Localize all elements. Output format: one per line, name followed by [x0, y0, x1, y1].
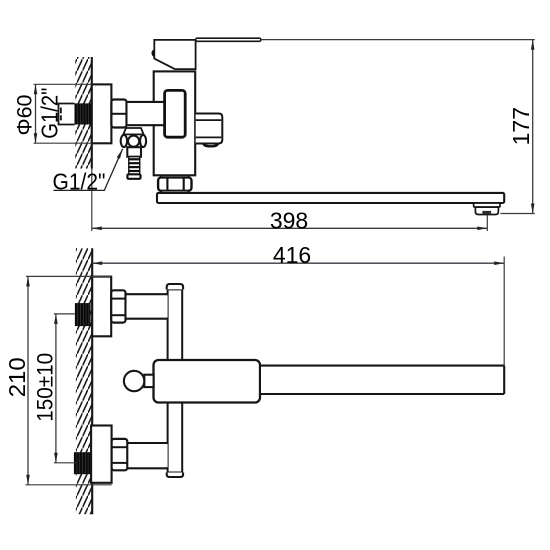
aerator lip — [474, 203, 500, 207]
valve neck — [127, 147, 141, 157]
faucet body (top view) — [154, 71, 196, 175]
handle pivot bump — [151, 49, 154, 57]
upper threaded nipple through wall (black block) — [75, 303, 91, 326]
svg-text:177: 177 — [508, 107, 534, 145]
svg-text:G1/2": G1/2" — [37, 88, 63, 139]
dimension 210 line with arrows — [26, 276, 30, 484]
supply pipe stub behind wall (top view) — [59, 104, 75, 125]
wall flange escutcheon (top view) — [92, 84, 112, 143]
dimension Phi60 line with arrows — [34, 84, 38, 143]
spout (top view) — [157, 193, 504, 203]
wall face line (top view) — [91, 57, 93, 169]
pipe thread dashes — [60, 108, 62, 121]
lower threaded nipple through wall (black block) — [74, 452, 91, 474]
shower outlet (right of body) — [196, 114, 223, 144]
wall (bottom view) hatched section — [76, 248, 92, 514]
aerator cup — [475, 207, 498, 214]
svg-text:398: 398 — [270, 208, 308, 234]
threaded nipple through wall (black block, top view) — [75, 103, 92, 124]
dimension 398 line with arrows — [92, 227, 488, 231]
spout (bottom view) — [260, 366, 504, 394]
shower outlet facet lines — [196, 120, 222, 137]
lower wall flange (bottom view) — [91, 426, 112, 483]
eccentric nut (top view) — [111, 100, 126, 128]
central mixer block (bottom view) — [154, 360, 261, 403]
svg-text:Φ60: Φ60 — [13, 94, 37, 135]
body column bottom cap — [167, 473, 183, 478]
body column (bottom view) — [168, 289, 183, 472]
body column top cap — [167, 284, 183, 289]
upper wall flange (bottom view) — [92, 277, 111, 337]
label G1/2" with leader (check valve) — [53, 149, 123, 195]
dimension 416 extension line (right) — [503, 257, 505, 366]
neck between body and nut — [161, 175, 189, 177]
lower eccentric nut (bottom view) — [112, 439, 128, 470]
shower hose threaded nipple — [127, 157, 140, 179]
spout nut (hex, top view) — [158, 177, 191, 190]
diverter valve wheel — [121, 135, 146, 147]
aerator slot — [482, 211, 491, 214]
upper connecting pipe (bottom view) — [126, 294, 168, 319]
shower outlet nipple arc — [204, 144, 218, 147]
dimension 150+-10 line with arrows — [54, 314, 58, 463]
inlet pipe from nut into body (top view) — [127, 102, 167, 125]
svg-text:416: 416 — [273, 242, 311, 268]
upper eccentric nut (bottom view) — [111, 290, 125, 322]
handle head (top view) — [154, 40, 195, 69]
dimension 398 extension lines — [92, 169, 488, 232]
dimension 177 line with arrows — [531, 40, 535, 214]
wall (top view) hatched section — [75, 57, 92, 169]
svg-text:150±10: 150±10 — [33, 353, 58, 422]
dimension 150+-10 extension lines — [54, 314, 76, 463]
neck under nut — [162, 191, 189, 193]
dimension Phi60 extension lines — [34, 84, 92, 143]
dimension 210 extension lines — [26, 276, 112, 484]
diverter knob stem — [144, 375, 153, 387]
svg-text:210: 210 — [4, 357, 30, 397]
diverter knob — [124, 371, 144, 391]
wall face line (bottom view) — [91, 248, 93, 514]
lower connecting pipe (bottom view) — [127, 443, 167, 468]
cartridge cover plate on body — [165, 90, 186, 137]
dimension 416 line with arrows — [92, 261, 504, 265]
handle lever bar — [196, 38, 261, 41]
dimension 177 extension lines — [261, 40, 535, 214]
diverter valve cap — [123, 128, 143, 134]
